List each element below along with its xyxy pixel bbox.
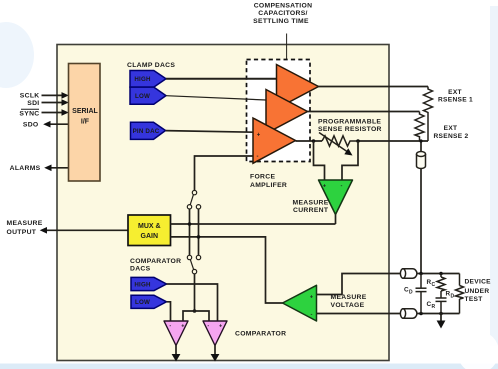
svg-text:DACS: DACS [130,265,151,272]
svg-text:RSENSE 1: RSENSE 1 [438,97,473,104]
svg-text:+: + [257,132,261,138]
svg-text:MEASURE: MEASURE [293,200,329,207]
svg-text:MUX &: MUX & [138,223,161,230]
svg-text:-: - [169,323,171,329]
svg-text:SDI: SDI [27,100,39,107]
svg-text:SCLK: SCLK [20,93,40,100]
svg-text:C: C [432,282,436,288]
svg-text:SERIAL: SERIAL [72,108,98,115]
svg-text:SYNC: SYNC [19,111,39,118]
svg-text:ALARMS: ALARMS [10,165,41,172]
svg-text:AMPLIFER: AMPLIFER [250,182,287,189]
svg-text:OUTPUT: OUTPUT [7,229,37,236]
svg-text:SETTLING TIME: SETTLING TIME [253,18,309,25]
svg-text:FORCE: FORCE [250,174,275,181]
svg-text:COMPARATOR: COMPARATOR [235,331,286,338]
svg-text:PIN DAC: PIN DAC [133,128,160,135]
svg-text:MEASURE: MEASURE [331,294,367,301]
svg-text:CLAMP DACS: CLAMP DACS [127,62,175,69]
svg-text:EXT: EXT [448,89,462,96]
svg-text:SDO: SDO [23,121,39,128]
svg-text:SENSE RESISTOR: SENSE RESISTOR [318,126,382,133]
svg-text:R: R [432,304,436,310]
svg-text:I/F: I/F [81,119,90,126]
svg-text:PROGRAMMABLE: PROGRAMMABLE [318,119,381,126]
svg-text:+: + [219,323,222,329]
svg-text:HIGH: HIGH [134,76,151,83]
svg-text:HIGH: HIGH [134,281,151,288]
svg-text:CURRENT: CURRENT [293,207,329,214]
svg-text:RSENSE 2: RSENSE 2 [433,133,468,140]
svg-text:D: D [409,290,413,296]
svg-text:DEVICE: DEVICE [465,279,492,286]
svg-text:-: - [311,312,313,318]
svg-text:GAIN: GAIN [141,233,159,240]
svg-text:+: + [181,324,184,330]
svg-text:COMPENSATION: COMPENSATION [254,3,313,10]
svg-text:LOW: LOW [135,93,150,100]
svg-text:COMPARATOR: COMPARATOR [130,258,181,265]
svg-text:EXT: EXT [444,125,458,132]
svg-text:UNDER: UNDER [465,288,490,295]
svg-text:CAPACITORS/: CAPACITORS/ [258,10,308,17]
svg-text:D: D [451,294,455,300]
svg-text:MEASURE: MEASURE [7,220,43,227]
svg-text:-: - [207,323,209,329]
svg-text:LOW: LOW [135,299,150,306]
svg-text:TEST: TEST [465,296,483,303]
svg-text:-: - [257,154,259,160]
svg-text:VOLTAGE: VOLTAGE [331,302,365,309]
svg-text:-: - [341,183,343,189]
